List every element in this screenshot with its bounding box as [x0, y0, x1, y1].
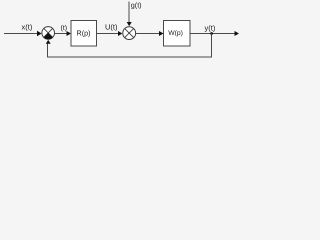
svg-text:W(p): W(p) — [168, 30, 183, 37]
svg-text:y(t): y(t) — [205, 24, 216, 33]
svg-text:x(t): x(t) — [22, 22, 33, 31]
wire: arrowhead into W(p) — [159, 31, 164, 36]
svg-text:(t): (t) — [61, 24, 68, 32]
wire: arrowhead into summer S2 — [118, 31, 122, 36]
svg-text:R(p): R(p) — [77, 28, 91, 37]
wire: disturbance input g(t) vertical — [129, 2, 130, 24]
wire: feedback bottom horizontal — [47, 57, 212, 58]
wire: summer S2 to block W(p) — [136, 33, 161, 34]
svg-text:g(t): g(t) — [131, 0, 142, 9]
wire: feedback vertical right — [211, 34, 212, 58]
summer S1 (comparison element, circle with X, bottom sector filled = minus) — [42, 27, 55, 40]
wire: arrowhead into summer S1 — [37, 31, 42, 36]
node: branch junction dot on output — [210, 32, 213, 35]
block W(p) (plant) — [164, 21, 191, 47]
wire: arrowhead of g(t) into summer S2 top — [127, 22, 132, 26]
block R(p) (regulator) — [71, 21, 97, 47]
wire: output arrowhead — [235, 31, 240, 36]
wire: input line x(t) — [4, 33, 39, 34]
summer S2 (adder for disturbance g(t), circle with X) — [123, 27, 136, 40]
svg-text:U(t): U(t) — [105, 22, 118, 31]
wire: R(p) to summer S2 — [97, 33, 119, 34]
wire: summer S1 to block R(p) — [55, 33, 68, 34]
wire: output line y(t) — [190, 33, 235, 34]
wire: feedback vertical left up into summer S1 — [47, 43, 48, 57]
wire: arrowhead into R(p) — [67, 31, 72, 36]
wire: arrowhead of feedback into summer S1 bottom — [46, 40, 51, 44]
